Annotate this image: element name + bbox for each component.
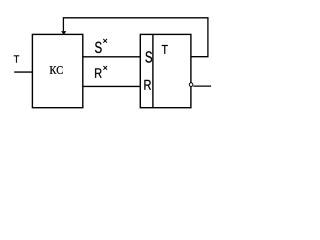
wire feedback drop to KC [62, 17, 64, 31]
pin label R [144, 80, 151, 90]
wire T input [14, 71, 32, 73]
label KC letter K [50, 66, 57, 74]
star of R* [103, 66, 107, 70]
star of S* [103, 39, 107, 43]
wire inverted output [193, 85, 211, 87]
wire S* [83, 56, 141, 58]
inverted output bubble [189, 83, 193, 87]
combinational circuit box KC [32, 34, 82, 107]
label R* [95, 68, 102, 77]
pin label S [145, 51, 152, 62]
label S* [95, 42, 102, 53]
flip-flop input column divider [152, 34, 154, 107]
wire feedback top horizontal [63, 17, 208, 19]
label T input [14, 55, 19, 62]
RS flip-flop box U1 [140, 34, 191, 107]
wire feedback vertical rise [207, 18, 209, 58]
wire R* [83, 85, 141, 87]
arrowhead into KC [61, 31, 66, 35]
label KC letter C [57, 66, 63, 74]
label T flip-flop type [162, 45, 168, 54]
wire Q output to feedback [191, 56, 208, 58]
